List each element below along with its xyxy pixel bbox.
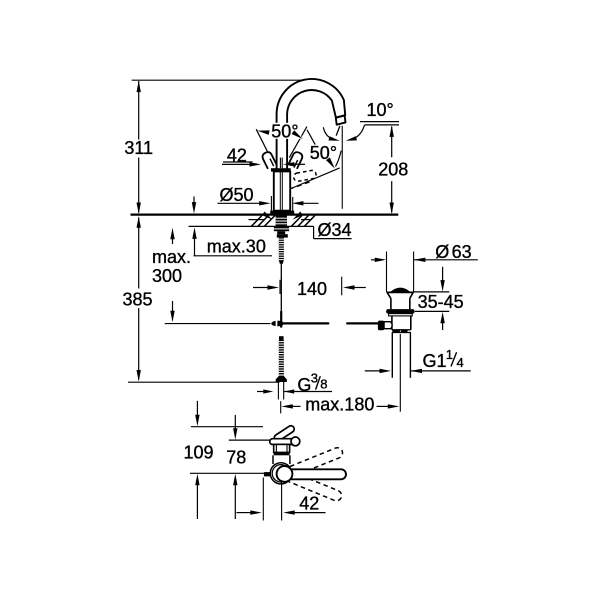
spout gooseneck tube xyxy=(277,79,346,169)
svg-text:10°: 10° xyxy=(367,100,394,120)
diameter34 underline xyxy=(314,238,352,240)
drain flange walls xyxy=(390,298,392,309)
base extension tick left xyxy=(270,196,272,211)
topview spout outlet tab xyxy=(264,472,271,476)
drain flange sides xyxy=(387,292,391,298)
G3/8 arrow right and underline xyxy=(284,389,294,393)
50deg no2 radial line xyxy=(307,130,315,145)
pull rod thick section xyxy=(280,311,282,328)
rod clamp xyxy=(271,321,284,327)
78 arrow up xyxy=(234,483,236,519)
diameter50 line and left arrow xyxy=(218,202,263,204)
50deg radial line left xyxy=(256,129,269,156)
svg-text:max.30: max.30 xyxy=(207,236,266,256)
35-45 arrow down xyxy=(442,267,444,283)
140 extension line left xyxy=(279,280,281,294)
svg-text:Ø34: Ø34 xyxy=(318,220,352,240)
lock nut xyxy=(277,234,288,237)
drain diameter63 extension right xyxy=(413,252,415,293)
G3/8 arrow left xyxy=(257,391,265,393)
topview handle hub xyxy=(277,466,293,482)
topview collar xyxy=(272,455,274,464)
pull rod upper ribbed section xyxy=(279,238,284,261)
topview handle dashed down position xyxy=(279,469,341,501)
140 extension line right xyxy=(341,277,343,296)
max30 arrow up xyxy=(194,239,196,256)
208 line upper segment xyxy=(391,127,393,158)
42 arrow right-pointing xyxy=(250,162,262,166)
deck line xyxy=(131,214,399,216)
42b extension left xyxy=(262,478,264,521)
dimension 311 line lower segment xyxy=(138,158,140,213)
G1-1/4 arrow right and underline xyxy=(411,369,423,373)
42 arrow left-pointing xyxy=(283,162,295,166)
drain diameter63 extension left xyxy=(386,252,388,293)
drain body walls xyxy=(391,316,393,330)
deck hatch right block xyxy=(292,215,316,226)
dashed swivel tube line xyxy=(292,182,310,188)
svg-text:50°: 50° xyxy=(310,143,337,163)
max180 arrow left xyxy=(281,404,293,408)
svg-text:8: 8 xyxy=(320,377,327,392)
svg-text:35-45: 35-45 xyxy=(418,292,464,312)
svg-text:208: 208 xyxy=(378,160,408,180)
top reference line (spout apex level) xyxy=(132,79,312,81)
deck hatch left block xyxy=(252,215,276,226)
dimension 385 line upper segment xyxy=(138,218,140,289)
dimension 385 line lower segment xyxy=(138,308,140,380)
diameter50 arrow right xyxy=(292,201,304,205)
svg-text:G1: G1 xyxy=(423,351,447,371)
35-45 arrow up xyxy=(442,321,444,331)
max300 bottom reference line xyxy=(165,323,271,325)
svg-text:Ø50: Ø50 xyxy=(220,185,254,205)
label 50deg first halo xyxy=(270,123,302,139)
50deg no2 arc xyxy=(336,151,342,167)
140 arrow right xyxy=(343,285,355,289)
svg-text:1: 1 xyxy=(446,347,453,362)
topview spout tip xyxy=(274,426,294,441)
109 arrow up xyxy=(196,483,198,519)
base escutcheon xyxy=(270,211,294,215)
svg-text:max.: max. xyxy=(152,247,191,267)
drain tailpipe xyxy=(391,333,393,378)
50deg arc arrow right xyxy=(292,130,303,139)
topview 78 reference line xyxy=(229,439,271,441)
topview spout horizontal xyxy=(270,439,298,445)
42b arrow left-pointing xyxy=(283,510,295,514)
deck bottom line (max.30) xyxy=(189,225,314,227)
pull rod lower ribbed section xyxy=(279,340,284,376)
208 line lower segment xyxy=(391,181,393,212)
mounting nut xyxy=(274,226,289,231)
topview aerator bulb xyxy=(291,437,300,446)
svg-text:385: 385 xyxy=(122,290,152,310)
svg-text:311: 311 xyxy=(124,138,153,158)
diameter63 arrow right and underline xyxy=(414,258,426,262)
50deg radial line right xyxy=(289,127,307,158)
topview escutcheon inner ring xyxy=(272,465,289,482)
hose tail tube xyxy=(277,382,279,400)
svg-text:140: 140 xyxy=(297,279,327,299)
hose end bell xyxy=(276,376,287,382)
42b extension right xyxy=(281,480,283,521)
bottom reference line of 385 (hose end level) xyxy=(128,381,280,383)
svg-text:63: 63 xyxy=(452,242,472,262)
109 arrow down xyxy=(196,401,198,417)
aerator tip xyxy=(336,116,346,125)
35-45 upper line xyxy=(414,291,450,293)
topview handle dashed up position xyxy=(280,448,343,480)
handle lever tip rotated right xyxy=(288,151,303,169)
drain flange top edge xyxy=(387,291,414,293)
topview handle lever xyxy=(280,469,347,479)
drain lever knob xyxy=(378,321,384,331)
body top cap xyxy=(271,168,291,171)
max180 arrow right xyxy=(377,405,390,407)
50deg arc arrow left xyxy=(257,130,269,135)
spout swivel axis line xyxy=(291,168,340,189)
dimension 311 line upper segment xyxy=(138,81,140,140)
shank collar xyxy=(277,231,285,234)
diameter63 arrow left xyxy=(371,259,378,261)
topview escutcheon outer circle xyxy=(270,463,291,484)
spout outlet dashed (swiveled) xyxy=(294,170,316,181)
handle lever tip rotated left xyxy=(261,151,276,169)
svg-text:G: G xyxy=(297,375,311,395)
base extension tick right xyxy=(292,197,294,212)
spout outlet axis extension line xyxy=(341,126,343,209)
svg-text:42: 42 xyxy=(299,494,319,514)
svg-text:4: 4 xyxy=(457,355,464,370)
42 underline xyxy=(223,161,252,163)
svg-text:3: 3 xyxy=(311,371,318,386)
drain center line xyxy=(399,334,401,412)
topview 109 reference line xyxy=(191,426,263,428)
svg-text:max.180: max.180 xyxy=(305,395,374,415)
svg-text:300: 300 xyxy=(152,266,182,286)
topview body xyxy=(274,444,290,452)
threaded shank xyxy=(276,216,287,227)
faucet body xyxy=(274,171,290,210)
diameter34 vertical tick xyxy=(313,226,315,238)
cartridge stem above body xyxy=(279,158,281,169)
140 arrow left xyxy=(253,287,270,289)
rod cone tip xyxy=(279,260,284,264)
body inner lines xyxy=(279,172,281,211)
35-45 lower line xyxy=(415,310,450,312)
G1-1/4 arrow left xyxy=(365,370,382,372)
drain gasket xyxy=(386,309,414,314)
max180 extension line left xyxy=(280,401,282,413)
pop-up rod horizontal left part xyxy=(284,322,328,324)
topview axis line xyxy=(190,472,270,474)
max300 arrow up xyxy=(172,237,174,244)
dimension 311 arrow down at deck xyxy=(137,203,141,215)
diameter34 arrow left xyxy=(262,212,272,220)
10deg arc left xyxy=(323,127,335,140)
42 arrow line xyxy=(222,163,251,165)
10deg arc left arrow xyxy=(329,136,340,141)
50deg no2 arc arrow xyxy=(326,158,335,169)
10deg arc right xyxy=(351,125,365,140)
pop-up rod horizontal right part xyxy=(347,322,378,324)
flow direction line (10 deg) xyxy=(336,126,340,136)
drain lever socket xyxy=(384,322,392,329)
diameter34 arrow right xyxy=(293,212,303,220)
dimension 385 arrow down xyxy=(137,370,141,382)
rod bead xyxy=(279,336,284,340)
dimension 311 arrow up xyxy=(137,81,141,93)
svg-text:78: 78 xyxy=(226,448,246,468)
10deg arc right arrow xyxy=(346,136,357,141)
svg-text:Ø: Ø xyxy=(435,242,449,262)
78 arrow down xyxy=(234,415,236,431)
svg-text:109: 109 xyxy=(184,443,214,463)
drain washer xyxy=(389,314,413,316)
drain plug dome xyxy=(391,288,409,292)
dimension 385 arrow up at deck xyxy=(137,216,141,228)
208 arrow down xyxy=(390,203,394,215)
max300 arrow down xyxy=(172,301,174,313)
topview body dark band xyxy=(274,452,290,455)
10deg reference line lower xyxy=(365,124,399,126)
pull rod thin section xyxy=(280,264,282,311)
drain bottom washer xyxy=(392,329,411,331)
208 arrow up xyxy=(390,125,394,136)
10deg reference line upper xyxy=(360,121,399,123)
42b arrow right-pointing xyxy=(237,512,253,514)
max30 underline xyxy=(194,255,273,257)
max30 arrow down xyxy=(193,197,195,206)
